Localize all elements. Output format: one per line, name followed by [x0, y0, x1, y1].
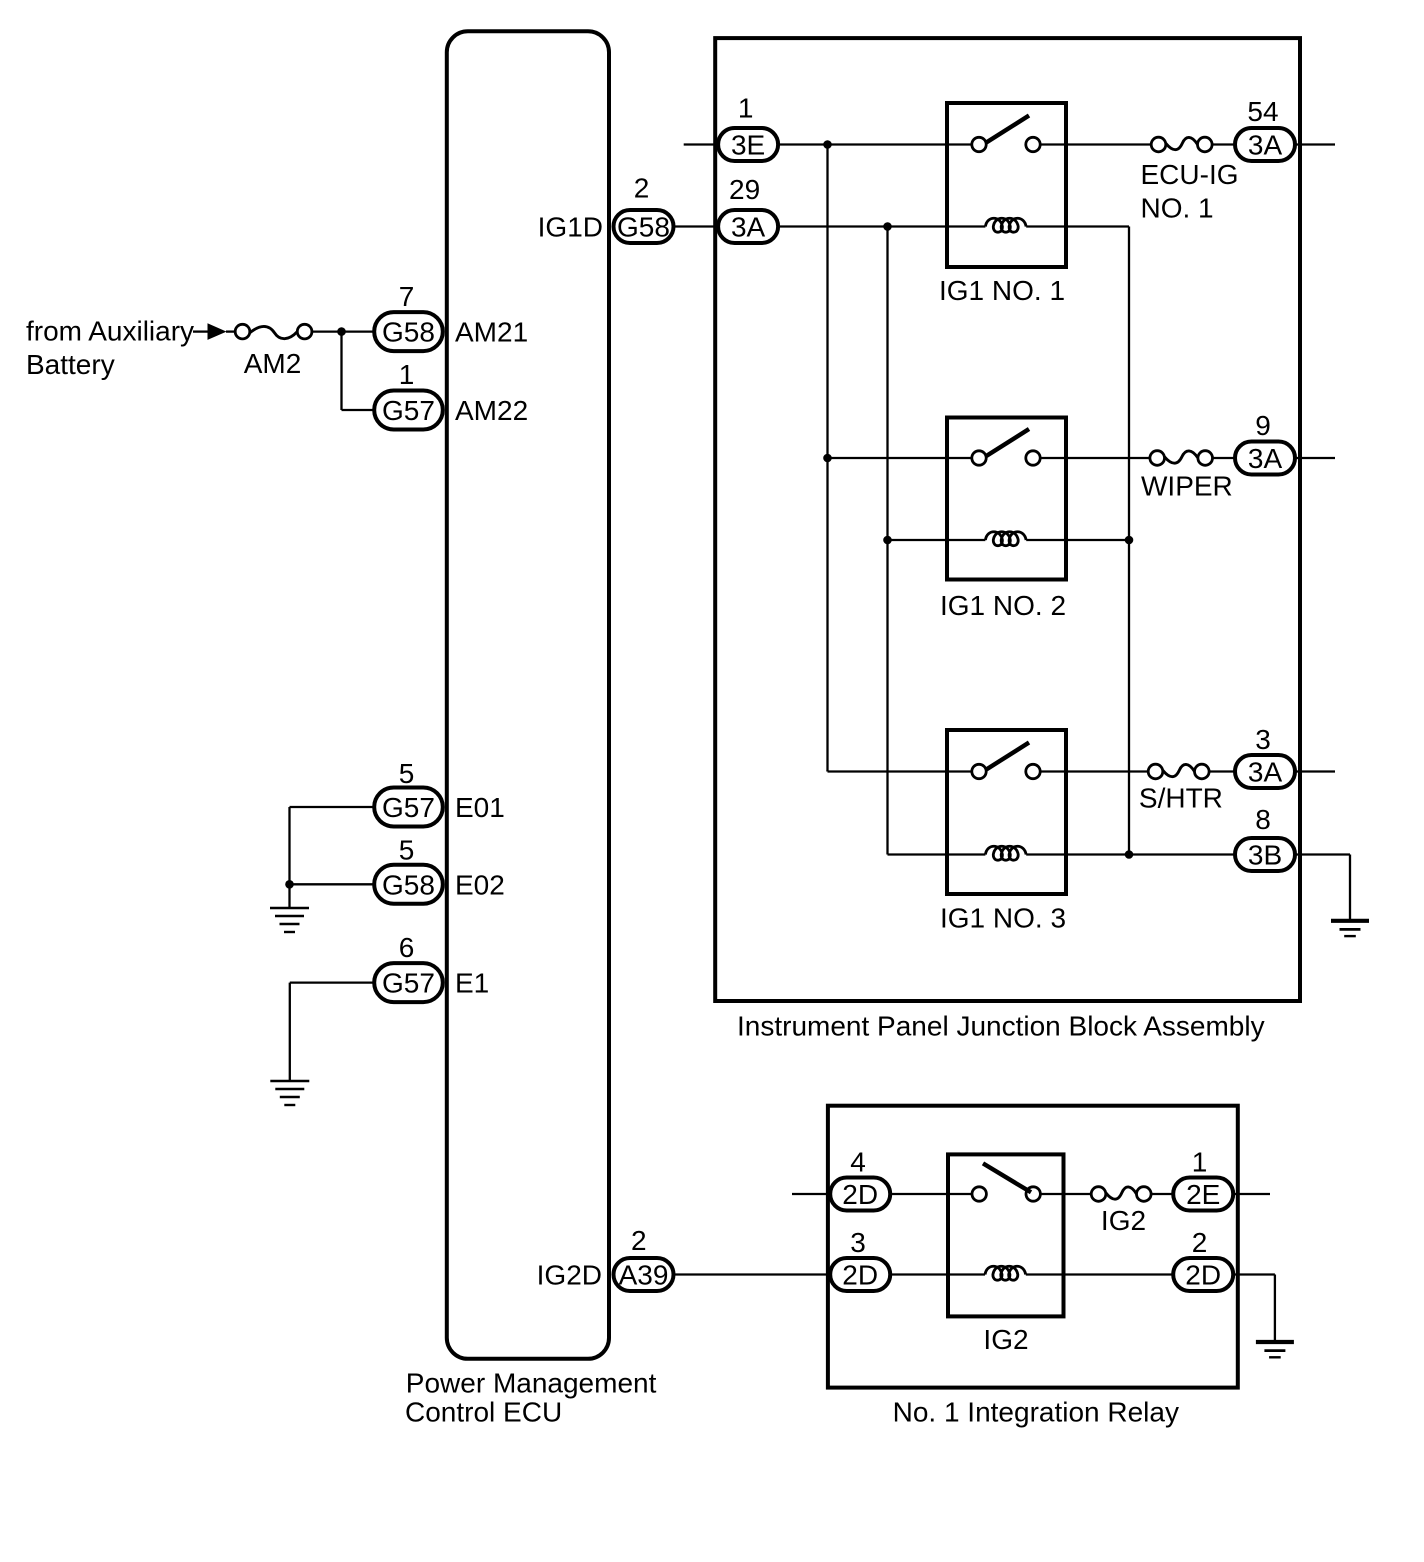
svg-text:IG1 NO. 2: IG1 NO. 2 — [940, 590, 1066, 621]
svg-text:8: 8 — [1255, 804, 1271, 835]
svg-text:7: 7 — [399, 281, 415, 312]
connector 2E 1 — [1173, 1178, 1233, 1211]
fuse S/HTR — [1148, 764, 1209, 779]
svg-text:5: 5 — [399, 758, 415, 789]
svg-text:Power Management: Power Management — [406, 1368, 657, 1399]
junction dot row D right — [1125, 536, 1134, 545]
junction dot E02 ground — [285, 880, 294, 889]
wire relay to fuse row A — [1040, 143, 1151, 145]
connector G57 AM22 — [374, 391, 443, 430]
connector G58 IG1D — [614, 210, 674, 243]
wire 3B right — [1295, 853, 1350, 855]
wire E1 — [290, 981, 374, 983]
svg-text:E02: E02 — [455, 869, 505, 900]
svg-text:G58: G58 — [382, 869, 435, 900]
wire E1 vertical — [289, 983, 291, 1081]
wire relay IG2 to fuse — [1040, 1193, 1091, 1195]
wire V1 corner to relay3 — [826, 770, 828, 771]
wire A39 to 2D — [674, 1273, 831, 1275]
ground E02 — [270, 908, 309, 932]
wire E02 ground stem — [288, 884, 290, 908]
svg-text:No. 1 Integration Relay: No. 1 Integration Relay — [893, 1397, 1179, 1428]
svg-text:Battery: Battery — [26, 349, 115, 380]
svg-text:AM21: AM21 — [455, 317, 528, 348]
wire 3B ground stem — [1349, 855, 1351, 921]
svg-text:3B: 3B — [1248, 840, 1282, 871]
wire V1 to relay2 — [828, 457, 972, 459]
wire stub right of 3A54 — [1295, 143, 1335, 145]
svg-text:G58: G58 — [617, 212, 670, 243]
svg-text:1: 1 — [399, 359, 415, 390]
wire 3E to relay — [778, 143, 972, 145]
wire fuse to 3A9 — [1213, 457, 1237, 459]
svg-text:IG2: IG2 — [1101, 1205, 1146, 1236]
connector 3A 3 — [1235, 755, 1295, 788]
svg-text:2: 2 — [631, 1225, 647, 1256]
fuse WIPER — [1150, 451, 1213, 466]
connector 2D 3 — [830, 1258, 890, 1291]
wire relay2 to fuse — [1040, 457, 1150, 459]
connector G58 E02 — [374, 865, 443, 904]
svg-text:IG1 NO. 3: IG1 NO. 3 — [940, 902, 1066, 933]
svg-text:S/HTR: S/HTR — [1139, 783, 1223, 814]
svg-text:2: 2 — [634, 173, 650, 204]
wire vertical V3 — [1128, 227, 1130, 855]
wire 2D4 to relay — [890, 1193, 972, 1195]
wire V2 to relay2 coil — [888, 539, 986, 541]
svg-text:3A: 3A — [1248, 443, 1283, 474]
svg-text:3A: 3A — [731, 212, 766, 243]
svg-text:WIPER: WIPER — [1141, 471, 1233, 502]
relay IG2 — [948, 1154, 1064, 1316]
relay IG1 NO. 2 — [947, 418, 1066, 580]
wire branch to G57 AM22 — [342, 409, 375, 411]
svg-text:9: 9 — [1255, 410, 1271, 441]
svg-text:4: 4 — [850, 1147, 866, 1178]
Instrument Panel Junction Block Assembly box — [715, 38, 1300, 1001]
svg-text:6: 6 — [399, 932, 415, 963]
junction dot AM2 branch — [337, 327, 346, 336]
wire relay3 to fuse — [1040, 770, 1148, 772]
wire fuse to G58 with branch — [312, 330, 374, 332]
svg-text:E01: E01 — [455, 792, 505, 823]
wire relay2 coil to V3 — [1026, 539, 1129, 541]
wire V2 corner to relay3 coil — [888, 853, 986, 855]
svg-text:G57: G57 — [382, 792, 435, 823]
wire vertical V2 — [886, 227, 888, 855]
wire stub left of 2D4 — [792, 1193, 832, 1195]
Power Management Control ECU box — [447, 31, 609, 1359]
svg-text:E1: E1 — [455, 968, 489, 999]
relay IG1 NO. 3 — [947, 730, 1066, 894]
junction dot row D left — [883, 536, 892, 545]
wire fuse to 2E — [1151, 1193, 1175, 1195]
wire branch down to AM22 — [340, 332, 342, 410]
svg-text:IG1 NO. 1: IG1 NO. 1 — [939, 275, 1065, 306]
fuse IG2 — [1091, 1187, 1151, 1202]
svg-text:IG1D: IG1D — [538, 212, 603, 243]
ground 3B — [1331, 921, 1369, 936]
junction dot row B — [883, 222, 892, 231]
wire coil out to V3 — [1026, 225, 1129, 227]
wire 2D2 ground stem — [1274, 1275, 1276, 1342]
svg-text:G57: G57 — [382, 968, 435, 999]
wire stub left of 3E — [684, 143, 718, 145]
wire vertical V1 — [826, 145, 828, 772]
svg-text:2D: 2D — [842, 1179, 878, 1210]
svg-text:54: 54 — [1247, 96, 1278, 127]
svg-text:G57: G57 — [382, 395, 435, 426]
junction dot row F — [1125, 850, 1134, 859]
ground IG2 — [1256, 1342, 1294, 1357]
svg-text:NO. 1: NO. 1 — [1141, 192, 1214, 223]
fuse AM2 — [235, 324, 312, 339]
connector G57 E1 — [374, 963, 443, 1002]
svg-text:AM22: AM22 — [455, 395, 528, 426]
connector 2D 2 — [1173, 1258, 1233, 1291]
No. 1 Integration Relay box — [828, 1106, 1238, 1388]
svg-text:ECU-IG: ECU-IG — [1141, 159, 1239, 190]
wire 2D3 to relay coil — [890, 1273, 985, 1275]
wire arrow to fuse — [226, 330, 235, 332]
wire from-battery lead — [193, 330, 208, 332]
wire E01 — [290, 806, 375, 808]
wire stub right of 3A9 — [1295, 457, 1335, 459]
connector 3B 8 — [1235, 838, 1295, 871]
connector G58 AM21 — [374, 312, 443, 351]
svg-text:2D: 2D — [1185, 1260, 1221, 1291]
svg-text:29: 29 — [729, 174, 760, 205]
ground E1 — [270, 1081, 309, 1105]
junction dot row A — [823, 140, 832, 149]
svg-text:Instrument Panel Junction Bloc: Instrument Panel Junction Block Assembly — [737, 1011, 1265, 1042]
wire 3A29 to relay coil — [778, 225, 985, 227]
wire fuse to 3A3 — [1209, 770, 1236, 772]
svg-text:2E: 2E — [1186, 1179, 1220, 1210]
svg-text:3: 3 — [1255, 724, 1271, 755]
wire fuse to 3A54 — [1212, 143, 1236, 145]
wire 2D2 right — [1233, 1273, 1275, 1275]
svg-text:5: 5 — [399, 835, 415, 866]
arrow from auxiliary battery — [208, 323, 227, 340]
svg-text:3: 3 — [850, 1227, 866, 1258]
connector 3A 54 — [1235, 128, 1295, 161]
svg-text:3A: 3A — [1248, 130, 1283, 161]
svg-text:AM2: AM2 — [244, 348, 302, 379]
wire relay3 coil to 3B — [1026, 853, 1236, 855]
connector 3A 29 — [718, 210, 778, 243]
fuse ECU-IG NO. 1 — [1151, 137, 1212, 152]
svg-text:from Auxiliary: from Auxiliary — [26, 315, 194, 346]
wire E02 — [290, 883, 375, 885]
svg-text:1: 1 — [1192, 1147, 1208, 1178]
svg-text:IG2: IG2 — [983, 1324, 1028, 1355]
wire stub right of 2E — [1233, 1193, 1270, 1195]
svg-text:3E: 3E — [731, 130, 765, 161]
svg-text:3A: 3A — [1248, 757, 1283, 788]
svg-text:2: 2 — [1192, 1227, 1208, 1258]
relay IG1 NO. 1 — [947, 103, 1066, 267]
connector 2D 4 — [830, 1178, 890, 1211]
connector A39 IG2D — [614, 1258, 674, 1291]
svg-text:2D: 2D — [842, 1260, 878, 1291]
junction dot row C — [823, 454, 832, 463]
svg-text:A39: A39 — [619, 1260, 669, 1291]
wire stub right of 3A3 — [1295, 770, 1335, 772]
svg-text:IG2D: IG2D — [537, 1260, 602, 1291]
wire coil to 2D2 — [1026, 1273, 1175, 1275]
connector 3A 9 — [1235, 442, 1295, 475]
svg-text:G58: G58 — [382, 317, 435, 348]
svg-text:Control ECU: Control ECU — [405, 1397, 562, 1428]
svg-text:1: 1 — [738, 93, 754, 124]
connector G57 E01 — [374, 788, 443, 827]
connector 3E — [718, 128, 778, 161]
wire E01-E02 vertical — [288, 807, 290, 884]
wire G58 to 3A — [674, 225, 719, 227]
